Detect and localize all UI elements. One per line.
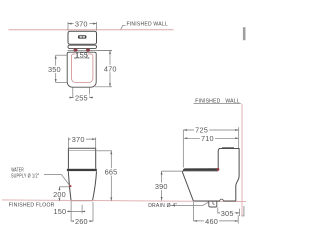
dimension 370 (plan view top)	[68, 22, 97, 31]
flush button on tank top (side view)	[222, 147, 234, 149]
seat and lid (side view, thick dark)	[183, 168, 219, 171]
tank lid lip (plan view)	[68, 45, 97, 48]
hinge bar line (plan view)	[68, 49, 113, 51]
seat hinge left (red)	[74, 49, 78, 52]
dimension 470 (plan view right)	[95, 50, 112, 86]
dimension 260 (front view bottom)	[71, 202, 93, 222]
dimension 305 (side view bottom)	[218, 207, 240, 216]
svg-text:350: 350	[48, 65, 61, 74]
scrollbar artifact top right	[243, 27, 246, 40]
dimension 200 (front view)	[59, 187, 69, 201]
small foot bump (side view bottom)	[220, 199, 224, 201]
finished wall line (plan view, red horizontal)	[9, 29, 174, 31]
scrollbar artifact bottom right	[241, 206, 244, 216]
svg-text:FINISHED FLOOR: FINISHED FLOOR	[9, 203, 55, 209]
dimension 255 (plan view bottom)	[69, 88, 93, 98]
svg-text:SUPPLY Ø 1/2": SUPPLY Ø 1/2"	[11, 174, 39, 180]
water supply point (red dot)	[69, 185, 71, 187]
dimension 150 (front view bottom)	[67, 201, 84, 222]
seat lid outline (plan view, red)	[72, 54, 93, 83]
seat outer outline (plan view)	[67, 52, 96, 87]
svg-text:255: 255	[75, 93, 88, 102]
svg-text:460: 460	[205, 217, 218, 226]
dimension 390 (side view left)	[162, 171, 183, 200]
svg-text:DRAIN Ø 4": DRAIN Ø 4"	[148, 203, 177, 209]
bowl front profile (side view)	[182, 171, 193, 201]
svg-text:155: 155	[75, 50, 88, 59]
svg-text:WATER: WATER	[11, 167, 24, 173]
dimension 665 (front view right)	[97, 151, 113, 201]
svg-text:FINISHED WALL: FINISHED WALL	[127, 21, 168, 27]
tank (front view)	[68, 148, 95, 169]
svg-text:200: 200	[53, 190, 66, 199]
dimension 460 (side view bottom)	[194, 202, 239, 224]
bowl pedestal (front view)	[68, 171, 71, 200]
water supply leader	[44, 175, 70, 186]
drain leader	[170, 202, 209, 205]
svg-text:710: 710	[201, 134, 214, 143]
cistern tank (plan view)	[68, 31, 97, 44]
finished floor line (red, full width)	[2, 200, 246, 202]
tank lid seam (front view)	[68, 150, 95, 152]
FINISHED WALL label (side view)	[194, 98, 241, 104]
dimension 725 (side view)	[183, 127, 238, 167]
dimension 370 (front view)	[68, 137, 95, 148]
svg-text:305: 305	[221, 209, 234, 218]
dimension 350 (plan view left)	[56, 55, 67, 82]
dimension 710 (side view)	[184, 137, 239, 139]
svg-text:370: 370	[72, 135, 85, 144]
svg-text:260: 260	[75, 217, 88, 226]
svg-text:150: 150	[53, 207, 66, 216]
seat hinge right (red)	[86, 49, 90, 52]
dimension 155 (plan view, between hinges)	[76, 53, 88, 59]
toilet profile (side view)	[218, 149, 239, 202]
trap / drain (side view, below floor)	[209, 201, 217, 207]
seat hinge dot (side view, red)	[217, 168, 220, 171]
svg-text:470: 470	[104, 64, 117, 73]
tank lid band (front view, thick)	[67, 169, 97, 171]
svg-text:390: 390	[155, 182, 168, 191]
WATER SUPPLY label	[11, 167, 39, 179]
bowl rim under seat (side view, thin line)	[184, 170, 219, 172]
toilet bottom line (side view)	[193, 200, 235, 202]
flush button (plan view)	[78, 35, 86, 38]
svg-text:665: 665	[105, 168, 118, 177]
svg-text:370: 370	[75, 19, 88, 28]
FINISHED WALL label (top)	[121, 21, 168, 29]
finished wall line (side view, red vertical)	[241, 104, 243, 216]
